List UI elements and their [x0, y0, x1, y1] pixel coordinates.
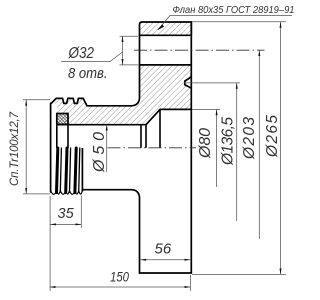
svg-text:8 отв.: 8 отв.: [68, 66, 108, 82]
svg-text:Ø80: Ø80: [197, 128, 214, 159]
svg-text:Ø32: Ø32: [68, 45, 94, 62]
svg-text:56: 56: [155, 241, 172, 258]
svg-text:Ø50: Ø50: [91, 132, 108, 173]
svg-text:Ø136,5: Ø136,5: [220, 117, 237, 166]
svg-text:150: 150: [110, 269, 129, 285]
svg-text:Сп.Тr100х12,7: Сп.Тr100х12,7: [9, 111, 21, 186]
svg-text:35: 35: [58, 206, 75, 222]
svg-text:Флан 80х35 ГОСТ 28919–91: Флан 80х35 ГОСТ 28919–91: [173, 5, 295, 16]
svg-text:Ø265: Ø265: [264, 115, 281, 158]
svg-text:Ø203: Ø203: [241, 117, 258, 160]
